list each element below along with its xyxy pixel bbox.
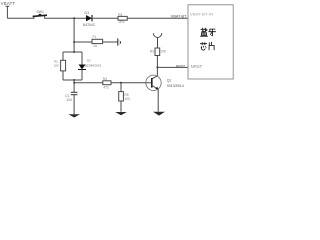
ground under R5 bbox=[115, 112, 127, 115]
wire collector bbox=[156, 67, 158, 76]
resistor R3 bbox=[150, 48, 167, 56]
svg-text:VBATT: VBATT bbox=[1, 1, 16, 6]
svg-text:104: 104 bbox=[66, 98, 72, 102]
chip box U1 bbox=[188, 5, 233, 79]
svg-text:D2: D2 bbox=[87, 59, 91, 63]
wire clamp bottom edge bbox=[63, 79, 82, 81]
svg-text:R4: R4 bbox=[103, 77, 107, 81]
resistor R1 bbox=[118, 13, 127, 24]
capacitor C1 104 bbox=[65, 92, 77, 114]
svg-text:103: 103 bbox=[124, 97, 130, 101]
switch SW1 bbox=[33, 10, 47, 18]
svg-text:10K: 10K bbox=[54, 64, 59, 68]
svg-text:NRST: NRST bbox=[191, 64, 203, 69]
svg-text:SW1: SW1 bbox=[37, 10, 44, 14]
wire jog down bbox=[73, 80, 75, 92]
chip name 芯 bbox=[200, 43, 206, 51]
svg-text:472: 472 bbox=[103, 85, 109, 89]
power port arc bbox=[153, 33, 162, 48]
wire R5 to ground bbox=[120, 101, 122, 112]
wire R1 to chip bbox=[127, 17, 188, 19]
wire left branch bbox=[62, 52, 64, 80]
wire vertical from rail junction bbox=[73, 18, 75, 52]
svg-text:10K: 10K bbox=[160, 49, 167, 53]
node junction top of clamp network bbox=[73, 51, 75, 53]
node junction at x=74 bbox=[73, 17, 75, 19]
wire R3 to collector node bbox=[156, 56, 158, 68]
wire branch to fuse bbox=[74, 41, 92, 43]
node junction clamp/C1 bbox=[73, 82, 75, 84]
svg-text:R3: R3 bbox=[150, 49, 154, 53]
wire R4 to base bbox=[111, 82, 152, 84]
diode D1 BAT54C bbox=[83, 11, 96, 27]
power flag VBATT bbox=[6, 6, 10, 18]
svg-text:2R2: 2R2 bbox=[119, 20, 125, 24]
svg-text:1A: 1A bbox=[93, 44, 98, 48]
svg-text:VBAT-BT-IN: VBAT-BT-IN bbox=[190, 12, 213, 17]
node junction base divider bbox=[120, 82, 122, 84]
svg-text:Q1: Q1 bbox=[167, 78, 172, 82]
svg-text:BZX84C5V1: BZX84C5V1 bbox=[85, 63, 102, 67]
resistor R4 bbox=[103, 77, 111, 89]
ground under C1 bbox=[68, 114, 80, 117]
svg-text:F1: F1 bbox=[93, 35, 97, 39]
wire emitter down bbox=[157, 89, 159, 111]
fuse F1 bbox=[92, 35, 103, 48]
wire node to chip NRST bbox=[157, 66, 188, 68]
connector pin P1 bbox=[118, 38, 121, 45]
node junction bottom bbox=[73, 79, 75, 81]
wire rail to diode bbox=[45, 17, 86, 19]
chip name 片 bbox=[209, 42, 214, 50]
wire rail left bbox=[7, 17, 34, 19]
svg-text:R1: R1 bbox=[118, 13, 122, 17]
chip name 牙 bbox=[209, 29, 216, 36]
zener diode D2 bbox=[78, 52, 102, 80]
wire clamp top edge bbox=[63, 51, 82, 53]
svg-text:NRST: NRST bbox=[176, 64, 185, 68]
svg-text:BAT54C: BAT54C bbox=[83, 23, 96, 27]
transistor Q1 bbox=[146, 75, 184, 90]
svg-text:D1: D1 bbox=[85, 11, 90, 15]
wire fuse to connector bbox=[103, 41, 118, 43]
resistor R2 bbox=[54, 60, 66, 71]
svg-text:9013/9014: 9013/9014 bbox=[167, 84, 184, 88]
node junction collector bbox=[156, 66, 158, 68]
node junction at branch bbox=[73, 41, 75, 43]
ground under Q1 bbox=[153, 112, 165, 116]
wire clamp node to R4 bbox=[74, 82, 103, 84]
wire diode to R1 bbox=[92, 17, 118, 19]
wire to R5 bbox=[120, 83, 122, 92]
svg-text:VBAT-BT: VBAT-BT bbox=[171, 15, 187, 19]
chip name 蓝 bbox=[201, 28, 208, 36]
resistor R5 bbox=[119, 92, 130, 101]
